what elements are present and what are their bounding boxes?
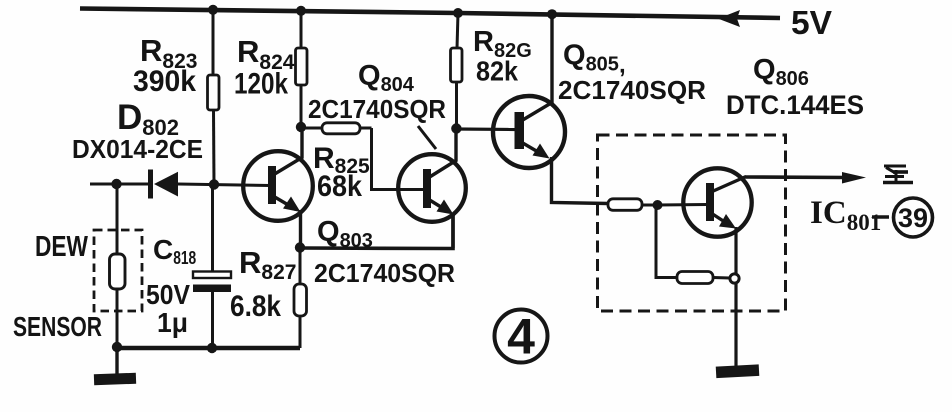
至 (to) character (883, 166, 913, 183)
resistor R827 (294, 248, 307, 348)
transistor Q804 (398, 129, 466, 248)
wire: Q806 emitter to ground (734, 283, 737, 366)
feedback resistor (Q806) (656, 205, 730, 284)
svg-text:120k: 120k (234, 68, 288, 101)
svg-text:2C1740SQR: 2C1740SQR (314, 258, 455, 288)
transistor Q806 (683, 168, 751, 274)
5V rail arrowhead (718, 10, 740, 27)
svg-text:2C1740SQR: 2C1740SQR (558, 75, 706, 105)
svg-text:SENSOR: SENSOR (13, 311, 102, 342)
transistor Q803 (243, 127, 313, 247)
wire: output to IC801 (745, 175, 847, 179)
junction rail/R823 (208, 5, 218, 15)
svg-text:82k: 82k (476, 56, 518, 87)
svg-text:2C1740SQR: 2C1740SQR (308, 94, 446, 124)
junction ring emitter/feedback (730, 274, 739, 283)
svg-text:50V: 50V (146, 279, 190, 310)
resistor R823 (208, 9, 220, 184)
resistor R826 (451, 13, 463, 128)
Q804 label pointer line (418, 126, 436, 149)
wire: diode to Q803 base (178, 184, 270, 186)
wire: bottom ground bus (114, 346, 300, 350)
junction Q803 emitter/R827 (295, 242, 305, 252)
svg-text:39: 39 (898, 203, 928, 233)
ground (left) (94, 348, 136, 385)
IC801 dash (872, 215, 889, 219)
wire: +5V supply rail (80, 9, 780, 19)
junction R826/Q804 collector/Q805 base (451, 123, 461, 133)
DEW sensor element (110, 184, 126, 348)
output arrowhead (842, 172, 866, 184)
svg-text:6.8k: 6.8k (230, 290, 281, 323)
dashed box (Q806 hybrid) (598, 135, 786, 311)
diode D802 (148, 170, 178, 199)
resistor R824 (296, 10, 308, 127)
svg-text:4: 4 (507, 309, 535, 365)
wire: Q805 base (456, 127, 516, 131)
junction R824/R825/Q803 collector (296, 122, 306, 132)
ground (right) (716, 364, 760, 378)
wire R825 to Q804 base (372, 128, 427, 190)
svg-text:DEW: DEW (35, 231, 88, 263)
wire: input node to diode (90, 183, 150, 186)
junction bottom/DEW (112, 342, 122, 352)
transistor Q805 (493, 15, 608, 204)
svg-text:68k: 68k (317, 170, 362, 203)
junction rail/R824 (296, 6, 306, 16)
svg-text:390k: 390k (133, 65, 196, 98)
resistor Q806 base (608, 199, 707, 211)
svg-text:5V: 5V (791, 4, 832, 41)
junction input/DEW sensor (111, 179, 121, 189)
DEW sensor dashed box (94, 230, 142, 311)
junction input/R823/C818 (209, 179, 219, 189)
circled 39 (pin) (894, 198, 933, 237)
capacitor C818 (193, 184, 231, 348)
svg-text:1μ: 1μ (157, 307, 188, 338)
wire: emitter bus Q803-Q804 (300, 215, 453, 249)
resistor R825 (301, 123, 426, 190)
circled 4 (sheet number) (495, 309, 548, 365)
svg-text:DX014-2CE: DX014-2CE (72, 134, 203, 164)
junction bottom/C818 (207, 343, 217, 353)
junction Q806 base node (653, 200, 663, 210)
junction rail/Q805 collector (547, 9, 557, 19)
junction rail/R826 (453, 8, 463, 18)
svg-text:DTC.144ES: DTC.144ES (726, 90, 864, 120)
